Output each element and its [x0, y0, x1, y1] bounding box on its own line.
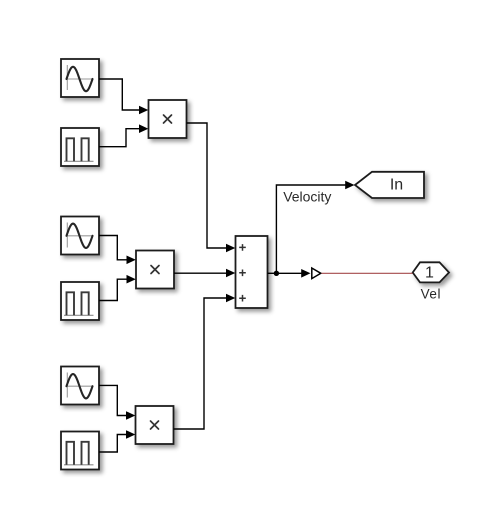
wire Sine3 to P3	[99, 385, 135, 419]
sine wave source Sine2	[61, 217, 99, 255]
wire Sine2 to P2	[99, 236, 136, 265]
wire Pulse3 to P3	[99, 430, 135, 452]
svg-text:In: In	[390, 177, 403, 194]
sine wave source Sine1	[61, 59, 99, 97]
sum block	[236, 236, 268, 308]
svg-text:Velocity: Velocity	[283, 189, 331, 205]
wire P1 to sum input 1	[187, 123, 236, 252]
pulse generator Pulse2	[61, 282, 99, 320]
sine wave source Sine3	[61, 367, 99, 405]
product P3	[136, 406, 174, 444]
junction node	[274, 271, 279, 276]
wire Sine1 to P1	[99, 79, 148, 114]
pulse generator Pulse1	[61, 128, 99, 166]
goto tag In	[355, 172, 424, 198]
wire sum output	[268, 272, 277, 274]
wire P2 to sum input 2	[174, 269, 235, 278]
wire P3 to sum input 3	[174, 294, 236, 429]
product P2	[136, 251, 174, 289]
svg-text:1: 1	[425, 265, 434, 282]
hollow triangle connector	[312, 268, 321, 279]
svg-text:Vel: Vel	[421, 286, 441, 301]
wire Pulse1 to P1	[99, 124, 148, 146]
pulse generator Pulse3	[61, 432, 99, 470]
wire junction to output arrow	[276, 269, 310, 278]
wire junction to goto tag In	[276, 181, 354, 274]
outport 1	[413, 262, 449, 282]
wire Pulse2 to P2	[99, 275, 136, 301]
red signal wire to outport	[322, 272, 413, 274]
product P1	[149, 100, 187, 138]
